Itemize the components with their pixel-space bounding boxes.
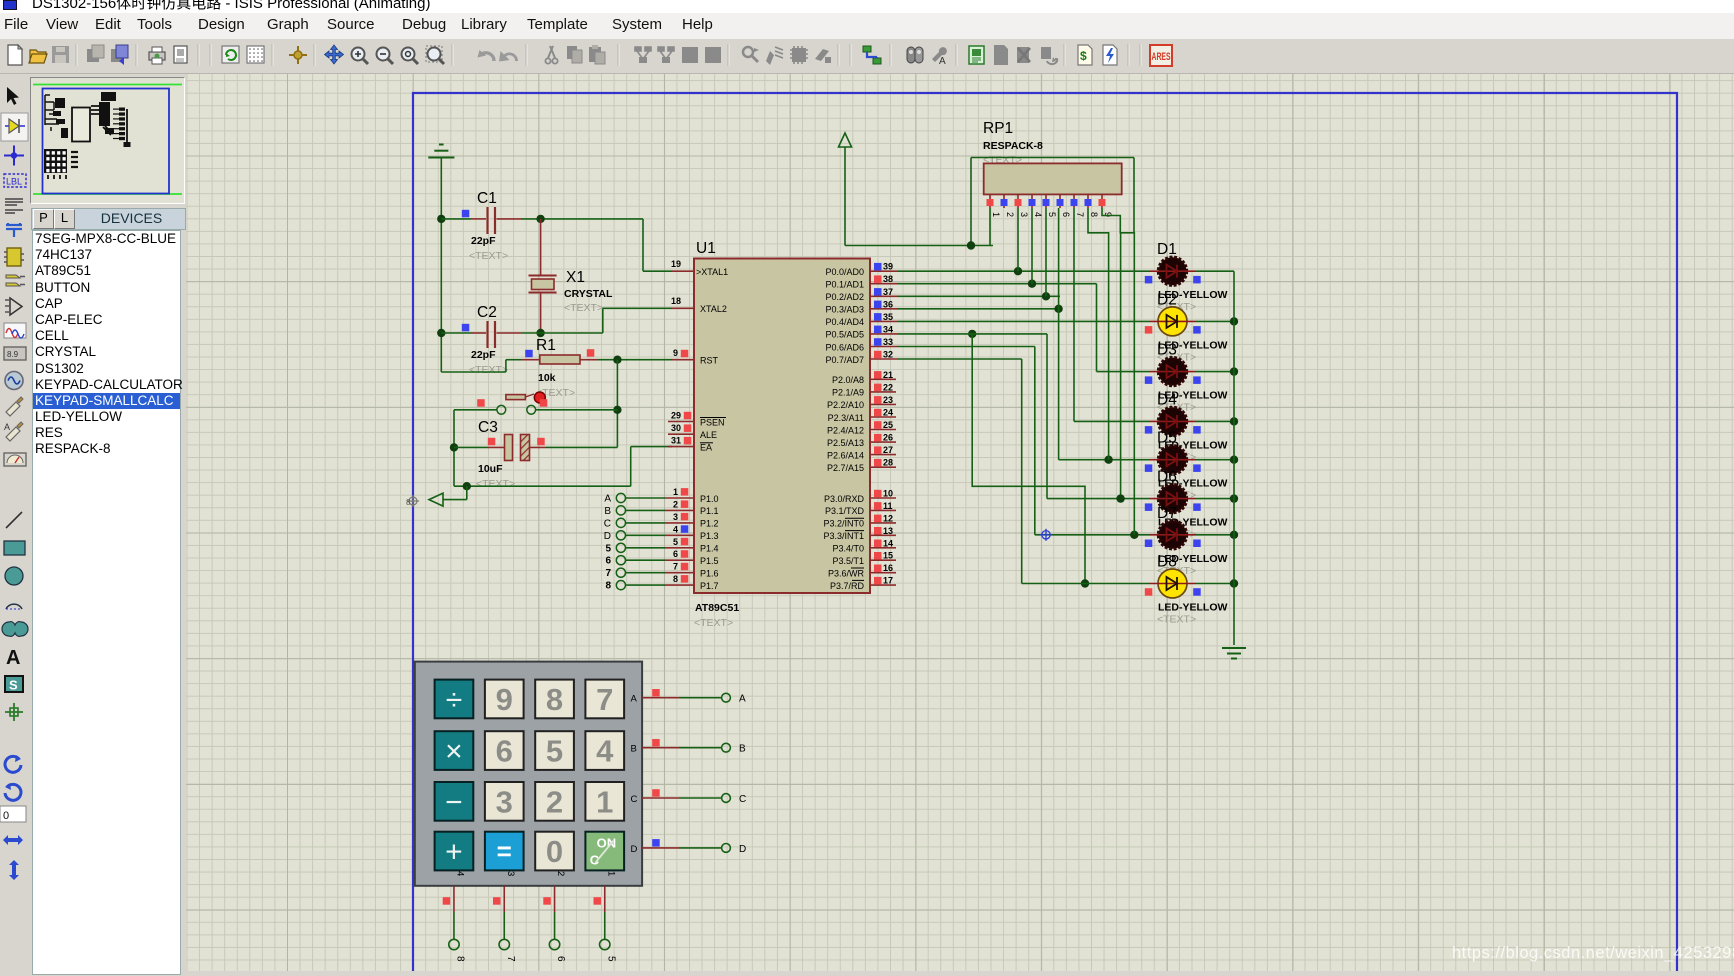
svg-text:3: 3 <box>505 871 516 876</box>
sidebar icon 2D box <box>4 541 25 555</box>
minimap view band bottom <box>33 193 182 195</box>
keypad column pin 1 stub <box>604 886 606 912</box>
RP1 pin 8 state square <box>1085 199 1092 206</box>
U1 pin 39 state square <box>874 263 882 271</box>
menu bar <box>0 13 1734 40</box>
svg-text:P3.6/WR: P3.6/WR <box>828 569 865 579</box>
toolbar icon export <box>111 45 128 65</box>
svg-text:5: 5 <box>1047 212 1057 217</box>
svg-text:6: 6 <box>555 956 566 962</box>
svg-text:5: 5 <box>546 734 563 769</box>
wire C1 right to XTAL1 <box>521 218 643 220</box>
toolbar icon zoom 100 <box>402 48 419 65</box>
U1 pin 39 P0.0 stub <box>870 270 897 272</box>
svg-text:7: 7 <box>673 562 678 572</box>
U1 pin 35 P0.4 stub <box>870 320 897 322</box>
wire RST node down <box>616 360 618 448</box>
svg-text:P3.1/TXD: P3.1/TXD <box>825 506 865 516</box>
wire D3 cathode to ground bus <box>1196 371 1234 373</box>
wire P0.1 descent to D3 <box>1096 284 1098 372</box>
svg-text:>XTAL1: >XTAL1 <box>696 267 728 277</box>
svg-text:B: B <box>739 744 746 755</box>
U1 RD overline <box>852 579 864 581</box>
U1 pin 10 state square <box>874 490 882 498</box>
keypad button 9 <box>485 680 524 719</box>
toolbar icon electrical check <box>1103 45 1117 65</box>
U1 pin 1 state square <box>681 488 689 496</box>
wire column to terminal 7 <box>503 912 505 939</box>
svg-text:P2.3/A11: P2.3/A11 <box>828 413 864 423</box>
node B terminal at U1 <box>616 506 625 515</box>
svg-text:8: 8 <box>673 574 678 584</box>
svg-text:22pF: 22pF <box>471 349 496 361</box>
U1 pin 33 P0.6 stub <box>870 346 897 348</box>
keypad row pin A stub <box>642 697 679 699</box>
U1 pin 38 P0.1 stub <box>870 283 897 285</box>
LED D7 <box>1159 521 1187 549</box>
svg-text:D3: D3 <box>1157 342 1177 359</box>
svg-text:P1.7: P1.7 <box>700 581 719 591</box>
svg-text:RP1: RP1 <box>983 120 1013 137</box>
wire VCC arrow down <box>844 147 846 246</box>
power terminal arrow left <box>466 486 468 499</box>
wire crystal bottom <box>540 293 542 334</box>
wire D6 cathode to ground bus <box>1196 498 1234 500</box>
junction crystal top <box>536 215 544 223</box>
junction ground bus D8 <box>1230 579 1238 587</box>
wire terminal B to P1.1 <box>626 509 666 511</box>
svg-text:12: 12 <box>883 513 893 523</box>
keypad button 5 <box>535 731 574 770</box>
svg-text:7: 7 <box>596 682 613 717</box>
svg-text:P3.4/T0: P3.4/T0 <box>832 544 864 554</box>
svg-text:P0.2/AD2: P0.2/AD2 <box>825 292 864 302</box>
svg-text:15: 15 <box>883 551 893 561</box>
RP1 pin 4 stub <box>1031 194 1033 208</box>
svg-text:7: 7 <box>1075 212 1085 217</box>
column 1 state square <box>594 897 602 905</box>
LED D2 <box>1158 307 1187 336</box>
toolbar icon paste <box>589 45 605 64</box>
U1 pin 27 P2.6 stub <box>870 454 896 456</box>
RP1 body <box>984 163 1122 194</box>
wire RP1 pin4 down <box>1031 208 1033 284</box>
wire R1 right to RST <box>598 359 672 361</box>
U1 pin 11 P3.1 stub <box>870 509 896 511</box>
svg-text:18: 18 <box>671 296 681 306</box>
svg-text:C: C <box>631 794 638 805</box>
U1 pin 36 P0.3 stub <box>870 308 897 310</box>
svg-text:B: B <box>631 744 637 755</box>
svg-text:D6: D6 <box>1157 469 1177 486</box>
keypad button 1 <box>585 782 624 821</box>
wire EA to VCC <box>630 447 632 487</box>
wire D7 cathode to ground bus <box>1196 534 1234 536</box>
svg-text:D4: D4 <box>1157 391 1177 408</box>
junction RP1 pin4 on P0.1 <box>1028 280 1036 288</box>
svg-text:28: 28 <box>883 458 893 468</box>
wire alt tap down <box>972 334 1085 584</box>
sidebar icon graph <box>5 298 22 315</box>
toolbar icon grid <box>247 46 264 63</box>
U1 pin 26 P2.5 stub <box>870 441 896 443</box>
junction alt tap on D8 row <box>1081 579 1089 587</box>
U1 pin 14 P3.4 stub <box>870 547 896 549</box>
U1 pin 32 P0.7 stub <box>870 358 897 360</box>
toolbar icon goto sheet <box>1041 47 1057 64</box>
RP1 pin 4 state square <box>1029 199 1036 206</box>
svg-text:21: 21 <box>883 370 893 380</box>
svg-text:36: 36 <box>883 299 893 309</box>
sidebar icon tape recorder <box>4 347 26 360</box>
U1 pin 9 RST stub <box>672 359 694 361</box>
svg-text:0: 0 <box>546 834 563 869</box>
svg-text:32: 32 <box>883 350 893 360</box>
LED D4 <box>1159 407 1187 435</box>
svg-text:P0.1/AD1: P0.1/AD1 <box>825 280 864 290</box>
svg-text:ALE: ALE <box>700 430 717 440</box>
svg-text:9: 9 <box>496 682 513 717</box>
junction C1 left <box>437 215 445 223</box>
svg-text:P3.3/INT1: P3.3/INT1 <box>823 531 864 541</box>
toolbar icon block op 1 <box>635 47 651 63</box>
sidebar icon virtual instruments <box>4 453 26 466</box>
svg-text:P3.2/INT0: P3.2/INT0 <box>823 519 864 529</box>
svg-text:13: 13 <box>883 526 893 536</box>
panel: minimap + device list <box>30 74 186 971</box>
watermark <box>1452 944 1734 963</box>
LED D5 <box>1159 446 1187 474</box>
wire terminal A to P1.0 <box>626 497 666 499</box>
node D terminal <box>722 844 731 853</box>
U1 pin 8 P1.7 stub <box>665 584 694 586</box>
junction ground bus D3 <box>1230 367 1238 375</box>
U1 pin 8 state square <box>681 575 689 583</box>
junction staircase on D6 row <box>1116 494 1124 502</box>
svg-text:3: 3 <box>496 784 513 819</box>
svg-text:8: 8 <box>406 498 411 507</box>
wire P0.3 row <box>897 308 1059 310</box>
U1 pin 37 P0.2 stub <box>870 295 897 297</box>
ground symbol bottom-right <box>1222 647 1246 649</box>
row A state square <box>652 689 660 697</box>
toolbar icon pick <box>743 47 759 62</box>
wire terminal C to P1.2 <box>626 522 666 524</box>
wire P0.5 row <box>897 333 1047 335</box>
sidebar icon 2D symbol <box>5 676 23 693</box>
button bar <box>506 395 526 400</box>
svg-text:23: 23 <box>883 395 893 405</box>
U1 pin 19 XTAL1 stub <box>672 270 694 272</box>
svg-text:<TEXT>: <TEXT> <box>564 302 603 314</box>
RP1 pin 5 stub <box>1045 194 1047 208</box>
svg-text:<TEXT>: <TEXT> <box>469 364 508 376</box>
U1 pin 37 state square <box>874 288 882 296</box>
U1 pin 34 state square <box>874 326 882 334</box>
svg-text:6: 6 <box>673 549 678 559</box>
keypad button 8 <box>535 680 574 719</box>
svg-text:A: A <box>4 422 10 432</box>
node C terminal <box>722 794 731 803</box>
svg-text:P2.1/A9: P2.1/A9 <box>832 388 864 398</box>
U1 pin 29 state square <box>684 412 692 420</box>
node B terminal <box>722 743 731 752</box>
U1 WR overline <box>851 567 864 569</box>
wire D3 anode row <box>1097 371 1151 373</box>
U1 pin 21 state square <box>874 371 882 379</box>
U1 pin 4 state square <box>681 525 689 533</box>
svg-text:6: 6 <box>1061 212 1071 217</box>
keypad column pin 3 stub <box>503 886 505 912</box>
svg-text:P2.2/A10: P2.2/A10 <box>827 400 864 410</box>
svg-text:<TEXT>: <TEXT> <box>1157 614 1196 626</box>
sidebar icon text script <box>5 199 23 213</box>
sidebar icon mirror horizontal <box>3 835 23 845</box>
svg-text:11: 11 <box>883 501 893 511</box>
U1 pin 27 state square <box>874 446 882 454</box>
sidebar icon voltage probe <box>6 397 23 416</box>
wire C3 right to RST node <box>546 446 617 448</box>
wire VCC rail to RP1 pin1 <box>845 245 993 247</box>
U1 pin 12 state square <box>874 515 882 523</box>
svg-text:P0.5/AD5: P0.5/AD5 <box>825 330 864 340</box>
wire C2 left <box>441 332 471 334</box>
wire P0.6 row <box>897 346 1035 348</box>
sidebar icon 2D arc <box>6 604 22 609</box>
junction alt tap on P0.4 <box>968 330 976 338</box>
keypad button 3 <box>485 782 524 821</box>
wire D2 cathode to ground bus <box>1196 320 1234 322</box>
toolbar icon pan <box>325 45 344 64</box>
toolbar icon block op 3 <box>682 47 698 63</box>
svg-text:P3.7/RD: P3.7/RD <box>830 581 865 591</box>
wire terminal 6 to P1.5 <box>626 559 666 561</box>
U1 pin 13 state square <box>874 527 882 535</box>
junction crystal bottom <box>536 329 544 337</box>
svg-text:10uF: 10uF <box>478 463 503 475</box>
column 3 state square <box>493 897 501 905</box>
svg-text:C: C <box>739 794 746 805</box>
toolbar icon ARES netlist <box>1149 44 1173 67</box>
R1 state squares <box>525 350 533 358</box>
U1 pin 11 state square <box>874 502 882 510</box>
svg-text:10k: 10k <box>538 372 556 384</box>
svg-text:8: 8 <box>546 682 563 717</box>
svg-text:XTAL2: XTAL2 <box>700 304 727 314</box>
wire column to terminal 6 <box>554 912 556 939</box>
LED D7 state squares <box>1145 540 1153 548</box>
svg-text:RESPACK-8: RESPACK-8 <box>983 140 1043 152</box>
U1 pin 17 P3.7 stub <box>870 584 896 586</box>
svg-text:6: 6 <box>496 734 513 769</box>
U1 pin 1 P1.0 stub <box>665 497 694 499</box>
wire P0.6 descent to D7 <box>1034 347 1036 535</box>
keypad button ÷ <box>435 680 474 719</box>
button terminals <box>497 405 506 414</box>
svg-text:P1.6: P1.6 <box>700 569 719 579</box>
node 6 terminal <box>549 939 559 949</box>
row B state square <box>652 739 660 747</box>
wire P0.0 row to D1 <box>897 270 1150 272</box>
toolbar icon bill of materials <box>1078 45 1092 65</box>
svg-text:AT89C51: AT89C51 <box>695 602 739 614</box>
svg-text:0: 0 <box>3 810 9 822</box>
toolbar icon zoom in <box>352 48 369 65</box>
toolbar icon cut <box>545 46 557 64</box>
junction RP1 pin3 on P0.0 <box>1014 267 1022 275</box>
U1 pin 15 P3.5 stub <box>870 559 896 561</box>
node 6 terminal at U1 <box>616 556 625 565</box>
sidebar icon rotate clockwise <box>5 755 21 772</box>
U1 pin 2 P1.1 stub <box>665 509 694 511</box>
junction VCC rail frame <box>967 241 975 249</box>
U1 pin 23 state square <box>874 396 882 404</box>
junction ground bus D4 <box>1230 417 1238 425</box>
wire button left <box>454 409 497 411</box>
sidebar icon 2D line <box>6 512 22 528</box>
U1 pin 31 stub <box>668 446 694 448</box>
svg-text:6: 6 <box>605 556 611 567</box>
U1 pin 31 state square <box>684 437 692 445</box>
svg-text:16: 16 <box>883 563 893 573</box>
svg-text:X1: X1 <box>566 269 585 286</box>
svg-text:LED-YELLOW: LED-YELLOW <box>1158 602 1227 614</box>
sidebar icon 2D marker <box>5 703 23 721</box>
svg-text:P1.5: P1.5 <box>700 556 719 566</box>
toolbar icon origin <box>289 46 307 64</box>
svg-text:<TEXT>: <TEXT> <box>476 478 515 490</box>
C3 state squares <box>488 438 496 446</box>
svg-text:26: 26 <box>883 433 893 443</box>
column 4 state square <box>443 897 451 905</box>
U1 pin 9 state square <box>681 350 689 358</box>
svg-text:P1.1: P1.1 <box>700 506 719 516</box>
RP1 pin 7 stub <box>1073 194 1075 208</box>
svg-text:EA: EA <box>700 443 712 453</box>
U1 pin 25 state square <box>874 421 882 429</box>
svg-text:LBL: LBL <box>6 177 22 187</box>
svg-text:A: A <box>604 494 611 505</box>
LED D1 <box>1159 257 1187 285</box>
wire row B to terminal <box>679 747 721 749</box>
wire D6 anode row <box>1047 498 1150 500</box>
junction RP1 pin6 on P0.3 <box>1054 305 1062 313</box>
RP1 pin 2 state square <box>1001 199 1008 206</box>
svg-text:D7: D7 <box>1157 505 1177 522</box>
power terminal VCC arrow <box>839 133 852 147</box>
sidebar icon subcircuit <box>4 248 24 266</box>
U1 pin 6 P1.5 stub <box>665 559 694 561</box>
keypad button ON/C <box>585 832 624 871</box>
wire RP1 pin6 down through P0.3 <box>1058 208 1060 460</box>
U1 pin 28 state square <box>874 459 882 467</box>
svg-text:35: 35 <box>883 312 893 322</box>
RP1 pin 6 state square <box>1057 199 1064 206</box>
junction RP1 pin5 on P0.2 <box>1042 292 1050 300</box>
svg-text:5: 5 <box>605 956 616 962</box>
svg-text:D5: D5 <box>1157 430 1177 447</box>
U1 pin 30 stub <box>668 433 694 435</box>
svg-text:P0.3/AD3: P0.3/AD3 <box>825 305 864 315</box>
toolbar icon block op 2 <box>658 47 674 63</box>
svg-text:P1.0: P1.0 <box>700 494 719 504</box>
U1 pin 5 state square <box>681 538 689 546</box>
wire D4 cathode to ground bus <box>1196 420 1234 422</box>
junction C3 left <box>450 443 458 451</box>
U1 pin 12 P3.2 stub <box>870 522 896 524</box>
junction pin9 staircase on D7 row <box>1130 531 1138 539</box>
LED D6 <box>1159 485 1187 513</box>
svg-text:33: 33 <box>883 337 893 347</box>
U1 pin 35 state square <box>874 313 882 321</box>
svg-text:22: 22 <box>883 382 893 392</box>
toolbar icon packaging <box>790 46 808 64</box>
U1 pin 36 state square <box>874 301 882 309</box>
keypad row pin D stub <box>642 847 679 849</box>
svg-text:4: 4 <box>454 871 465 876</box>
node A terminal at U1 <box>616 493 625 502</box>
U1 pin 17 state square <box>874 577 882 585</box>
svg-text:7: 7 <box>505 956 516 962</box>
sidebar icon component selected <box>1 113 28 141</box>
C1 state square <box>462 210 470 218</box>
svg-text:<TEXT>: <TEXT> <box>469 250 508 262</box>
RP1 pin 8 stub <box>1087 194 1089 208</box>
wire D7 anode row <box>1035 534 1150 536</box>
U1 pin 24 state square <box>874 409 882 417</box>
RP1 pin 9 state square <box>1099 199 1106 206</box>
node C terminal at U1 <box>616 518 625 527</box>
crystal X1 <box>529 275 557 277</box>
RP1 pin 1 stub <box>989 194 991 208</box>
toolbar icon search tag <box>907 47 923 63</box>
toolbar icon print area <box>174 46 187 63</box>
svg-text:2: 2 <box>555 871 566 876</box>
svg-text:29: 29 <box>671 411 681 421</box>
LED D2 state squares <box>1145 326 1153 334</box>
wire C1 left <box>441 218 471 220</box>
wire ground stem <box>440 158 442 373</box>
wire VCC bottom rail <box>454 485 631 487</box>
svg-text:U1: U1 <box>696 240 716 257</box>
svg-text:14: 14 <box>883 538 893 548</box>
wire P0.5 descent to D6 <box>1046 334 1048 499</box>
svg-text:8: 8 <box>454 956 465 962</box>
svg-text:CRYSTAL: CRYSTAL <box>564 288 613 300</box>
svg-text:P3.0/RXD: P3.0/RXD <box>824 494 865 504</box>
svg-text:4: 4 <box>596 734 614 769</box>
U1 pin 5 P1.4 stub <box>665 547 694 549</box>
toolbar icon print <box>149 47 165 64</box>
wire button right <box>536 409 618 411</box>
U1 pin 16 state square <box>874 565 882 573</box>
LED D8 <box>1158 569 1187 598</box>
node 5 terminal <box>600 939 610 949</box>
U1 pin 6 state square <box>681 550 689 558</box>
wire P0.7 row <box>897 358 1022 360</box>
microcontroller U1 AT89C51 body <box>694 259 870 594</box>
U1 pin 38 state square <box>874 275 882 283</box>
wire P0.7 descent to D8 <box>1021 359 1023 584</box>
toolbar icon redraw <box>222 46 239 63</box>
wire RP1 frame right <box>1133 158 1135 233</box>
wire RP1 pin3 down <box>1017 208 1019 271</box>
toolbar icon remove sheet <box>1017 47 1030 63</box>
keypad button 4 <box>585 731 624 770</box>
svg-text:8: 8 <box>605 581 611 592</box>
LED D4 state squares <box>1145 426 1153 434</box>
U1 pin 2 state square <box>681 500 689 508</box>
